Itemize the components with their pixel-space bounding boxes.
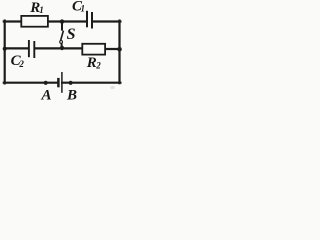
node A — [44, 81, 48, 85]
node: right middle junction — [117, 47, 122, 52]
battery cell — [58, 72, 62, 93]
wire top left segment — [4, 20, 22, 22]
wire middle left segment (to C2) — [5, 47, 29, 49]
wire right vertical — [118, 21, 120, 84]
svg-text:1: 1 — [39, 5, 44, 15]
capacitor C1 — [87, 11, 92, 29]
svg-text:1: 1 — [81, 4, 86, 14]
wire middle segment (C2 to switch to R2) — [35, 47, 83, 49]
svg-text:S: S — [67, 26, 76, 43]
wire top middle segment (R1 to C1) — [48, 20, 87, 22]
resistor R2 — [82, 44, 105, 55]
node: switch bottom junction — [60, 46, 64, 50]
speckle — [110, 86, 114, 89]
switch S — [60, 22, 64, 48]
resistor R1 — [21, 16, 48, 27]
node B — [69, 81, 73, 85]
svg-text:2: 2 — [18, 59, 24, 69]
capacitor C2 — [29, 40, 34, 58]
svg-text:B: B — [66, 87, 77, 103]
wire left vertical — [4, 21, 6, 84]
wire middle right segment (R2 to right wire) — [106, 48, 120, 50]
node: switch top junction — [60, 19, 64, 23]
svg-text:R: R — [86, 55, 97, 71]
wire bottom (right of battery) — [62, 82, 120, 84]
svg-text:A: A — [41, 88, 52, 104]
wire bottom (left of battery) — [4, 82, 58, 84]
svg-text:2: 2 — [95, 60, 101, 70]
wire top right segment (C1 to corner) — [92, 20, 120, 22]
node: left middle junction — [3, 47, 7, 51]
